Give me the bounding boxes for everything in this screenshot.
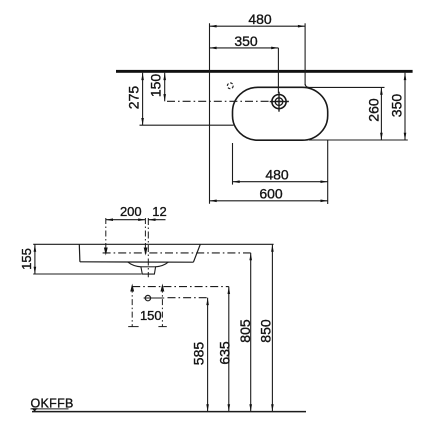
svg-text:585: 585 — [191, 342, 207, 366]
svg-text:150: 150 — [148, 74, 164, 98]
svg-text:155: 155 — [19, 248, 34, 270]
svg-text:350: 350 — [234, 33, 258, 49]
svg-text:260: 260 — [366, 98, 382, 122]
svg-text:350: 350 — [389, 94, 405, 118]
svg-text:805: 805 — [237, 319, 253, 343]
svg-text:850: 850 — [258, 319, 274, 343]
svg-text:600: 600 — [259, 186, 283, 202]
svg-text:150: 150 — [140, 308, 162, 323]
svg-text:480: 480 — [248, 11, 272, 27]
svg-text:480: 480 — [265, 167, 289, 183]
svg-text:635: 635 — [216, 341, 232, 365]
svg-text:200: 200 — [120, 204, 142, 219]
svg-text:12: 12 — [152, 204, 166, 219]
svg-text:275: 275 — [126, 86, 142, 110]
svg-text:OKFFB: OKFFB — [31, 396, 74, 410]
